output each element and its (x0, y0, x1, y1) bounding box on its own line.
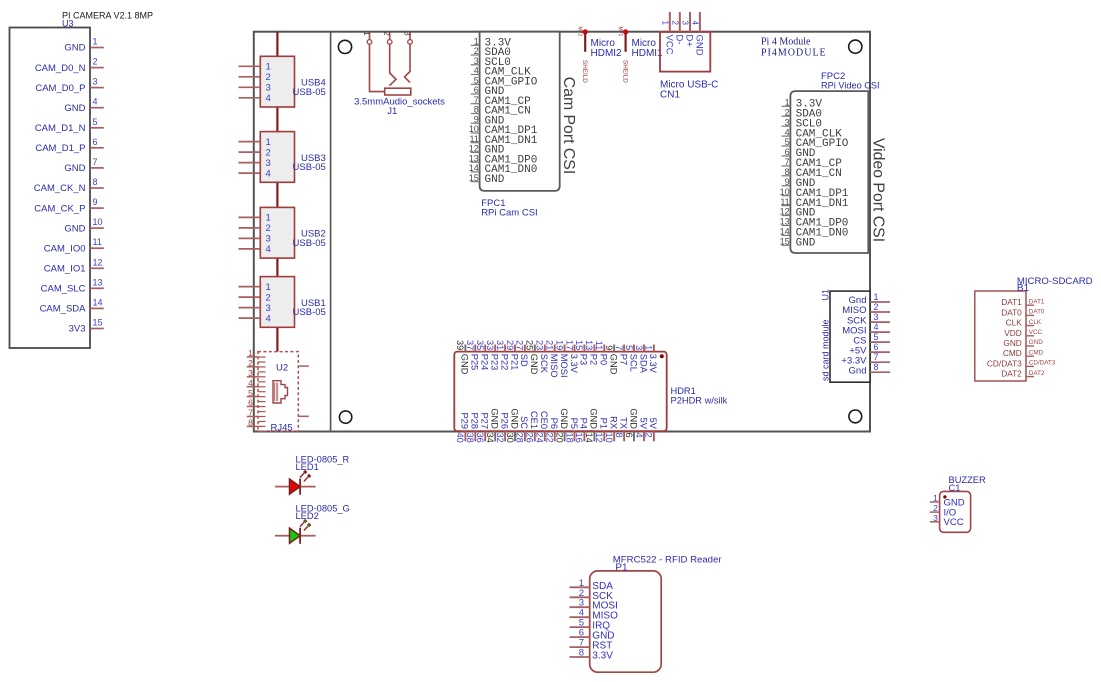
svg-text:P2: P2 (589, 354, 599, 365)
svg-text:2: 2 (266, 72, 271, 83)
svg-text:2: 2 (382, 31, 391, 36)
svg-text:USB-05: USB-05 (293, 238, 326, 249)
FPC2 pin 3 SCL0 (782, 117, 822, 130)
mounting hole bottom-right (849, 410, 862, 423)
HDR1 pin 25 GND (525, 340, 540, 375)
svg-text:CLK: CLK (1029, 319, 1042, 326)
wire USB1 to RJ45 (276, 327, 278, 351)
HDR1 pin 34 GND (485, 408, 500, 443)
connector USB1 USB-05 (239, 277, 326, 328)
svg-text:15: 15 (469, 173, 479, 183)
FPC2 pin 15 GND (780, 237, 816, 250)
svg-text:P2HDR w/silk: P2HDR w/silk (671, 396, 728, 406)
svg-text:MFRC522 - RFID Reader: MFRC522 - RFID Reader (613, 555, 723, 566)
svg-text:4: 4 (785, 127, 790, 137)
svg-text:VCC: VCC (664, 35, 675, 55)
svg-text:Video Port CSI: Video Port CSI (869, 138, 886, 242)
FPC1 pin 2 SDA0 (471, 46, 511, 59)
HDR1 pin 28 SC (515, 416, 530, 443)
svg-text:USB-05: USB-05 (293, 307, 326, 318)
svg-text:3: 3 (874, 312, 879, 322)
wire USB4 to USB3 (276, 107, 278, 132)
connector USB2 USB-05 (239, 207, 326, 258)
svg-text:P22: P22 (499, 354, 509, 371)
svg-text:CMD: CMD (1003, 348, 1022, 358)
U3 pin 14 CAM_SDA (40, 297, 104, 314)
svg-text:3.3V: 3.3V (648, 354, 658, 374)
svg-text:1: 1 (266, 282, 271, 293)
U2 pin 2 (247, 358, 258, 368)
svg-text:1: 1 (474, 37, 479, 47)
svg-text:14: 14 (780, 227, 790, 237)
module U1 sd card module (821, 289, 871, 382)
svg-text:PI CAMERA V2.1 8MP: PI CAMERA V2.1 8MP (62, 11, 153, 21)
LED LED1 LED-0805_R (275, 455, 350, 495)
svg-text:11: 11 (780, 197, 789, 207)
svg-text:SD: SD (519, 354, 529, 367)
connector FPC1 RPi Cam CSI (480, 32, 560, 219)
HDR1 pin 18 P5 (564, 418, 579, 443)
svg-text:2: 2 (266, 223, 271, 234)
svg-text:5: 5 (474, 76, 479, 86)
svg-text:9: 9 (474, 114, 479, 124)
svg-text:10: 10 (469, 124, 479, 134)
B1 pin DAT0 (1001, 307, 1045, 317)
U1 pin 8 Gnd (849, 362, 890, 376)
svg-text:11: 11 (594, 341, 604, 351)
U2 right pin stub lower (298, 415, 309, 417)
svg-text:SDA: SDA (638, 354, 648, 374)
U3 pin 8 CAM_CK_N (34, 177, 104, 194)
svg-text:M?1: M?1 (617, 27, 623, 37)
HDR1 pin 31 P22 (495, 340, 510, 370)
U2 pin 8 (247, 418, 258, 428)
C1 pin 1 GND (930, 493, 965, 508)
svg-text:2: 2 (933, 503, 938, 513)
HDR1 pin 29 P21 (505, 340, 520, 370)
HDR1 pin 1 3.3V (644, 345, 659, 374)
svg-text:P27: P27 (480, 412, 490, 429)
FPC2 pin 1 3.3V (782, 98, 823, 111)
svg-text:12: 12 (93, 257, 103, 267)
svg-text:D-: D- (674, 35, 685, 45)
svg-text:SCK: SCK (539, 354, 549, 374)
U3 pin 9 CAM_CK_P (34, 197, 104, 214)
svg-text:14: 14 (469, 163, 479, 173)
svg-text:U1: U1 (821, 289, 831, 301)
HDR1 pin 35 P24 (475, 340, 490, 370)
svg-text:5: 5 (785, 137, 790, 147)
svg-text:P5: P5 (569, 418, 579, 429)
svg-text:USB-05: USB-05 (293, 162, 326, 173)
U3 pin 15 3V3 (69, 318, 104, 335)
B1 pin CMD (1003, 348, 1044, 358)
svg-text:8: 8 (579, 648, 584, 659)
svg-text:3.5mmAudio_sockets: 3.5mmAudio_sockets (354, 97, 445, 108)
B1 pin CD/DAT3 (987, 358, 1056, 368)
svg-text:1: 1 (933, 493, 938, 503)
svg-text:4: 4 (474, 66, 479, 76)
FPC1 pin 11 CAM1_DN1 (469, 134, 537, 147)
HDR1 pin 14 GND (584, 408, 599, 443)
HDR1 pin 40 P29 (455, 412, 470, 442)
svg-text:P3: P3 (579, 354, 589, 365)
svg-text:1: 1 (874, 292, 879, 302)
svg-text:1: 1 (266, 213, 271, 224)
U3 pin 2 CAM_D0_N (35, 57, 104, 74)
U2 contact comb (258, 357, 266, 431)
svg-text:CAM_CK_P: CAM_CK_P (34, 203, 85, 214)
svg-text:6: 6 (624, 433, 634, 438)
HDR1 pin 32 P26 (495, 412, 510, 442)
svg-text:6: 6 (248, 398, 253, 408)
FPC1 pin 8 CAM1_CN (471, 105, 531, 118)
svg-text:28: 28 (515, 433, 525, 443)
FPC1 pin 5 CAM_GPIO (471, 76, 538, 89)
B1 pin VCC (1004, 328, 1042, 338)
svg-text:1: 1 (266, 62, 271, 73)
svg-text:37: 37 (465, 340, 475, 350)
svg-text:6: 6 (93, 137, 98, 147)
HDR1 pin 39 GND (455, 340, 470, 375)
svg-text:2: 2 (93, 57, 98, 67)
svg-text:3: 3 (785, 117, 790, 127)
svg-text:4: 4 (634, 433, 644, 438)
svg-text:2: 2 (644, 433, 654, 438)
svg-text:5V: 5V (648, 418, 658, 430)
svg-text:2: 2 (248, 358, 253, 368)
module P1 MFRC522 RFID Reader (590, 555, 723, 673)
B1 pin DAT2 (1001, 369, 1045, 379)
FPC1 pin 10 CAM1_DP1 (469, 124, 538, 137)
svg-text:USB-05: USB-05 (293, 87, 326, 98)
svg-text:GND: GND (529, 354, 539, 375)
junction Micro HDMI2 (577, 27, 623, 84)
FPC2 pin 11 CAM1_DN1 (780, 197, 848, 210)
svg-text:LED2: LED2 (296, 511, 319, 521)
svg-text:P21: P21 (509, 354, 519, 371)
svg-text:GND: GND (694, 35, 705, 56)
svg-text:25: 25 (525, 340, 535, 350)
svg-text:CN1: CN1 (660, 90, 680, 101)
svg-text:GND: GND (1029, 339, 1043, 346)
svg-text:P28: P28 (470, 412, 480, 429)
svg-text:P6: P6 (549, 418, 559, 429)
P1 pin 4 MISO (570, 608, 619, 622)
svg-text:7: 7 (248, 408, 253, 418)
svg-text:5: 5 (624, 345, 634, 350)
svg-text:30: 30 (505, 433, 515, 443)
HDR1 pin 6 GND (624, 408, 639, 441)
svg-text:4: 4 (874, 322, 879, 332)
svg-text:7: 7 (785, 157, 790, 167)
svg-text:22: 22 (545, 433, 555, 443)
U2 pin 5 (247, 388, 258, 398)
svg-text:3: 3 (933, 513, 938, 523)
svg-text:P4: P4 (579, 418, 589, 429)
svg-text:SHEILD: SHEILD (581, 60, 588, 83)
svg-text:3.3V: 3.3V (592, 651, 613, 662)
svg-text:10: 10 (780, 187, 790, 197)
svg-text:SCL: SCL (628, 354, 638, 372)
HDR1 pin 33 P23 (485, 340, 500, 370)
svg-text:3: 3 (474, 56, 479, 66)
svg-text:4: 4 (266, 93, 271, 104)
HDR1 pin 17 3.3V (564, 340, 579, 374)
svg-text:HDMI2: HDMI2 (591, 48, 623, 59)
svg-text:P29: P29 (460, 412, 470, 429)
U3 pin 3 CAM_D0_P (35, 77, 103, 94)
svg-text:GND: GND (460, 354, 470, 375)
svg-text:CMD: CMD (1029, 349, 1044, 356)
U1 pin 7 +3.3V (841, 352, 890, 366)
HDR1 pin 36 P27 (475, 412, 490, 442)
svg-text:6: 6 (874, 342, 879, 352)
svg-text:33: 33 (485, 340, 495, 350)
svg-text:3: 3 (248, 368, 253, 378)
svg-text:SC: SC (519, 416, 529, 429)
svg-text:B1: B1 (1017, 283, 1030, 294)
HDR1 pin 38 P28 (465, 412, 480, 442)
FPC2 pin 13 CAM1_DP0 (780, 217, 849, 230)
svg-text:8: 8 (874, 362, 879, 372)
FPC2 pin 5 CAM_GPIO (782, 137, 849, 150)
svg-text:CAM_D1_N: CAM_D1_N (35, 123, 86, 134)
P1 pin 5 IRQ (570, 618, 611, 632)
svg-text:GND: GND (490, 408, 500, 429)
HDR1 pin 24 CE0 (535, 411, 550, 443)
svg-text:4: 4 (93, 97, 98, 107)
svg-text:8: 8 (474, 105, 479, 115)
svg-text:18: 18 (564, 433, 574, 443)
svg-text:7: 7 (614, 345, 624, 350)
svg-text:P26: P26 (499, 412, 509, 429)
connector U2 RJ45 (258, 352, 298, 434)
svg-text:Gnd: Gnd (849, 365, 867, 376)
connector FPC2 RPi Video CSI (790, 71, 879, 253)
svg-text:14: 14 (93, 297, 103, 307)
B1 pin DAT1 (1001, 297, 1045, 307)
HDR1 pin 4 5V (634, 418, 649, 442)
FPC2 pin 2 SDA0 (782, 107, 822, 120)
svg-text:5V: 5V (638, 418, 648, 430)
buzzer C1 BUZZER (940, 475, 986, 532)
svg-text:CE1: CE1 (529, 411, 539, 429)
svg-text:35: 35 (475, 340, 485, 350)
svg-text:8: 8 (614, 433, 624, 438)
FPC1 pin 9 GND (471, 114, 505, 127)
U2 pin 4 (247, 378, 258, 388)
svg-text:4: 4 (266, 313, 271, 324)
U1 pin 5 CS (853, 332, 890, 346)
svg-text:15: 15 (93, 318, 103, 328)
mounting hole top-left (338, 40, 351, 53)
svg-text:6: 6 (474, 85, 479, 95)
U3 pin 7 GND (64, 157, 103, 174)
connector B1 MICRO-SDCARD (975, 276, 1093, 381)
svg-text:11: 11 (93, 237, 102, 247)
HDR1 pin 7 P7 (614, 345, 629, 366)
module board outline Pi 4 Module PI4MODULE (254, 32, 870, 432)
FPC1 pin 3 SCL0 (471, 56, 511, 69)
svg-text:RX: RX (609, 416, 619, 429)
svg-text:1: 1 (785, 98, 790, 108)
FPC2 pin 14 CAM1_DN0 (780, 227, 849, 240)
svg-text:39: 39 (455, 340, 465, 350)
svg-text:DAT0: DAT0 (1001, 307, 1022, 317)
svg-text:1: 1 (248, 348, 253, 358)
U2 pin 1 (247, 348, 258, 358)
svg-text:19: 19 (554, 340, 564, 350)
svg-text:13: 13 (469, 153, 479, 163)
svg-text:15: 15 (780, 237, 790, 247)
svg-text:RJ45: RJ45 (271, 423, 293, 434)
svg-text:8: 8 (785, 167, 790, 177)
svg-text:38: 38 (465, 433, 475, 443)
HDR1 pin 21 MISO (545, 340, 560, 378)
svg-text:14: 14 (584, 433, 594, 443)
svg-text:7: 7 (474, 95, 479, 105)
mounting hole bottom-left (339, 411, 351, 423)
connector CN1 Micro USB-C (660, 32, 718, 101)
svg-text:9: 9 (604, 345, 614, 350)
svg-text:GND: GND (64, 103, 85, 114)
svg-text:11: 11 (469, 134, 478, 144)
svg-text:3: 3 (681, 21, 690, 26)
svg-text:32: 32 (495, 433, 505, 443)
svg-text:27: 27 (515, 340, 525, 350)
U3 pin 13 CAM_SLC (41, 277, 104, 294)
svg-text:1: 1 (266, 137, 271, 148)
svg-text:5: 5 (93, 117, 98, 127)
svg-text:GND: GND (589, 408, 599, 429)
wire top edge to USB4 (276, 32, 278, 57)
svg-text:GND: GND (796, 238, 816, 250)
HDR1 pin 37 P25 (465, 340, 480, 370)
svg-text:5: 5 (874, 332, 879, 342)
U3 pin 4 GND (64, 97, 103, 114)
FPC2 pin 10 CAM1_DP1 (780, 187, 849, 200)
svg-text:7: 7 (93, 157, 98, 167)
svg-text:3V3: 3V3 (69, 324, 86, 335)
B1 pin CLK (1006, 318, 1042, 328)
svg-text:7: 7 (874, 352, 879, 362)
svg-text:13: 13 (584, 340, 594, 350)
svg-text:24: 24 (535, 433, 545, 443)
connector HDR1 P2HDR w/silk 40-pin header (454, 352, 727, 432)
svg-text:17: 17 (564, 340, 574, 350)
HDR1 pin 20 GND (554, 408, 569, 443)
svg-text:CAM_D0_N: CAM_D0_N (35, 63, 86, 74)
FPC2 pin 7 CAM1_CP (782, 157, 843, 170)
connector USB4 USB-05 (239, 56, 326, 107)
U1 pin 6 +5V (849, 342, 890, 356)
svg-text:CAM_SLC: CAM_SLC (41, 284, 86, 295)
U2 pin 3 (247, 368, 258, 378)
svg-text:HDMI1: HDMI1 (632, 48, 664, 59)
svg-text:VCC: VCC (944, 517, 964, 528)
svg-text:VCC: VCC (1029, 329, 1043, 336)
svg-text:P23: P23 (490, 354, 500, 371)
svg-text:1: 1 (660, 21, 669, 26)
svg-text:4: 4 (248, 378, 253, 388)
B1 pin GND (1003, 338, 1043, 348)
svg-text:CAM_D0_P: CAM_D0_P (35, 83, 85, 94)
svg-text:J1: J1 (387, 106, 397, 117)
svg-text:20: 20 (554, 433, 564, 443)
connector J1 3.5mmAudio_sockets (354, 31, 445, 117)
FPC1 pin 12 GND (469, 144, 505, 157)
HDR1 pin 23 SCK (535, 340, 550, 374)
FPC1 pin 7 CAM1_CP (471, 95, 531, 108)
svg-text:PI4MODULE: PI4MODULE (761, 48, 827, 59)
svg-text:DAT1: DAT1 (1001, 297, 1022, 307)
svg-text:4: 4 (266, 168, 271, 179)
svg-text:CAM_SDA: CAM_SDA (40, 304, 87, 315)
svg-text:12: 12 (594, 433, 604, 443)
mounting hole top-right (849, 40, 862, 53)
FPC2 pin 9 GND (782, 177, 816, 190)
svg-text:10: 10 (604, 433, 614, 443)
svg-text:U3: U3 (62, 19, 74, 29)
U3 pin 1 GND (64, 37, 103, 54)
svg-text:GND: GND (628, 408, 638, 429)
svg-text:U2: U2 (276, 363, 288, 374)
svg-text:3: 3 (266, 234, 271, 245)
HDR1 pin 26 CE1 (525, 411, 540, 443)
svg-text:VDD: VDD (1004, 328, 1022, 338)
svg-text:MOSI: MOSI (559, 354, 569, 378)
FPC2 pin 12 GND (780, 207, 816, 220)
HDR1 pin 3 SDA (634, 345, 649, 374)
svg-text:1: 1 (93, 37, 98, 47)
svg-text:3: 3 (403, 31, 412, 36)
svg-text:TX: TX (618, 417, 628, 429)
HDR1 pin 2 5V (644, 418, 659, 442)
svg-text:9: 9 (93, 197, 98, 207)
U2 right pin stub upper (298, 365, 309, 367)
svg-text:MISO: MISO (549, 354, 559, 378)
svg-text:M?2: M?2 (577, 27, 583, 37)
HDR1 pin 9 GND (604, 345, 619, 375)
U2 pin 7 (247, 408, 258, 418)
FPC1 pin 1 3.3V (471, 37, 512, 50)
svg-text:5: 5 (248, 388, 253, 398)
svg-text:LED1: LED1 (296, 462, 319, 472)
HDR1 pin 8 TX (614, 417, 629, 441)
IC U3 PI CAMERA V2.1 8MP (10, 11, 154, 349)
svg-text:CAM_D1_P: CAM_D1_P (35, 143, 85, 154)
U1 pin 4 MOSI (842, 322, 890, 336)
connector USB3 USB-05 (239, 132, 326, 183)
svg-text:RPi Cam CSI: RPi Cam CSI (481, 208, 537, 219)
svg-text:GND: GND (64, 163, 85, 174)
U3 pin 5 CAM_D1_N (35, 117, 104, 134)
C1 pin 3 VCC (930, 513, 964, 528)
svg-text:P1: P1 (599, 418, 609, 429)
P1 pin 3 MOSI (570, 598, 618, 612)
P1 pin 7 RST (570, 638, 613, 652)
svg-text:CD/DAT3: CD/DAT3 (1029, 360, 1056, 367)
svg-text:DAT2: DAT2 (1029, 370, 1045, 377)
svg-text:P24: P24 (480, 354, 490, 371)
svg-text:CD/DAT3: CD/DAT3 (987, 358, 1022, 368)
svg-text:34: 34 (485, 433, 495, 443)
FPC2 pin 4 CAM_CLK (782, 127, 843, 140)
svg-text:3: 3 (266, 303, 271, 314)
svg-text:CE0: CE0 (539, 411, 549, 429)
HDR1 pin 30 GND (505, 408, 520, 443)
